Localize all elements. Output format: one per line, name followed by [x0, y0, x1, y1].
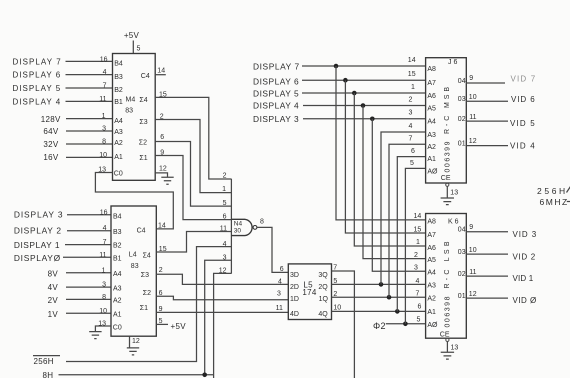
svg-text:A3: A3 [427, 283, 436, 290]
wire DISPLAY6 to M4.B3 [66, 74, 113, 76]
svg-text:9: 9 [469, 224, 473, 231]
junction dot DISPLAY3 [370, 117, 375, 122]
svg-text:K6: K6 [448, 218, 461, 225]
svg-text:8: 8 [260, 218, 264, 225]
svg-text:DISPLAY 6: DISPLAY 6 [13, 70, 61, 79]
svg-text:A6: A6 [427, 245, 436, 252]
svg-text:8: 8 [102, 139, 106, 146]
ROM U K6 (R-C LSB) box [426, 214, 467, 339]
ground (K6 CE) [441, 352, 454, 359]
svg-text:5: 5 [417, 316, 421, 323]
wire DISPLAY6 to J6.A7 pin15 [302, 79, 426, 81]
svg-text:11: 11 [99, 252, 106, 259]
wire DISPLAY5 to M4.B2 [66, 87, 113, 89]
wire DISPLAY3 drop to K6.A4 pin3 [372, 119, 425, 271]
svg-text:7: 7 [103, 83, 107, 90]
svg-text:6: 6 [280, 266, 284, 273]
svg-text:10: 10 [469, 247, 477, 254]
svg-text:A4: A4 [113, 271, 122, 278]
wire 4V to L4.A3 [66, 286, 111, 288]
wire J6.03 pin10 to VID 6 [466, 100, 508, 102]
junction dot DISPLAY7 [334, 64, 339, 69]
wire 4Q net up to J6.A1 pin6 [397, 157, 425, 312]
svg-text:6: 6 [418, 303, 422, 310]
svg-text:B4: B4 [113, 213, 122, 220]
svg-text:32V: 32V [43, 140, 58, 149]
wire 32V to M4.A2 [66, 143, 113, 145]
svg-text:8H: 8H [43, 371, 54, 378]
svg-text:Σ1: Σ1 [139, 155, 147, 162]
svg-text:A5: A5 [427, 106, 436, 113]
wire L4.C0 pin13 to ground [95, 326, 111, 332]
svg-text:14: 14 [157, 67, 165, 74]
stub M4.C4 pin 14 (unconnected) [155, 74, 166, 76]
wire K6.03 pin10 to VID 2 [466, 253, 508, 255]
svg-text:B4: B4 [114, 60, 123, 67]
wire L4.S2 pin6 to L5.1D pin3 [156, 296, 288, 299]
svg-text:DISPLAY 3: DISPLAY 3 [14, 210, 63, 220]
NAND gate N4 (74LS30) input edge [230, 179, 232, 274]
flip-flop U L5 (74174) box [288, 264, 331, 320]
svg-text:DISPLAY 4: DISPLAY 4 [253, 100, 299, 110]
svg-text:11: 11 [469, 269, 476, 276]
svg-text:DISPLAY 1: DISPLAY 1 [14, 240, 60, 250]
svg-text:A8: A8 [427, 66, 436, 73]
svg-text:CE: CE [440, 332, 450, 339]
svg-text:4: 4 [278, 279, 282, 286]
svg-text:3: 3 [277, 291, 281, 298]
wire 8H end up to NAND N4 pin12 [214, 273, 232, 378]
svg-text:04: 04 [458, 78, 466, 85]
svg-text:6: 6 [411, 148, 415, 155]
svg-text:16: 16 [100, 210, 108, 217]
svg-text:2: 2 [414, 252, 418, 259]
svg-text:1: 1 [102, 113, 106, 120]
wire 2Q net up to J6.A3 pin4 [381, 132, 426, 284]
svg-text:4: 4 [103, 225, 107, 232]
svg-text:A1: A1 [427, 309, 436, 316]
svg-text:11: 11 [469, 114, 476, 121]
wire DISPLAY0 to L4.B1 [63, 256, 111, 258]
svg-text:16V: 16V [43, 153, 58, 162]
wire DISPLAY7 to J6.A8 pin14 [302, 65, 426, 67]
svg-text:VID Ø: VID Ø [513, 296, 537, 305]
svg-text:2: 2 [159, 267, 163, 274]
wire 128V to M4.A4 [66, 118, 113, 120]
svg-text:6: 6 [160, 134, 164, 141]
svg-text:A3: A3 [113, 285, 122, 292]
svg-text:A2: A2 [427, 295, 436, 302]
svg-text:VID 2: VID 2 [513, 253, 536, 262]
svg-text:VID 6: VID 6 [511, 95, 535, 104]
svg-text:VID 4: VID 4 [510, 141, 535, 150]
svg-text:A2: A2 [427, 144, 436, 151]
svg-text:03: 03 [458, 249, 466, 256]
svg-text:3: 3 [223, 254, 227, 261]
svg-text:2: 2 [409, 97, 413, 104]
svg-text:DISPLAYØ: DISPLAYØ [14, 253, 61, 263]
svg-text:12: 12 [132, 338, 140, 345]
wire J6.CE pin13 stub [446, 186, 448, 197]
svg-text:1Q: 1Q [319, 296, 329, 303]
svg-text:4V: 4V [48, 283, 59, 292]
svg-text:Φ2: Φ2 [373, 321, 386, 331]
svg-text:14: 14 [158, 223, 166, 230]
svg-text:04: 04 [458, 226, 466, 233]
svg-text:3: 3 [414, 265, 418, 272]
wire DISPLAY5 drop to K6.A6 pin1 [354, 93, 425, 246]
wire DISPLAY2 to L4.B3 [67, 230, 111, 232]
svg-text:B2: B2 [113, 243, 122, 250]
svg-text:11: 11 [276, 305, 283, 312]
svg-text:A6: A6 [427, 93, 436, 100]
svg-text:12: 12 [159, 165, 167, 172]
svg-text:30: 30 [234, 228, 242, 235]
svg-text:01: 01 [458, 293, 466, 300]
svg-text:2V: 2V [48, 296, 59, 305]
wire 2V to L4.A2 [66, 298, 111, 300]
wire K6.04 pin9 to VID 3 [466, 231, 508, 233]
junction dot DISPLAY4 [361, 103, 366, 108]
svg-text:A7: A7 [427, 232, 436, 239]
wire J6.04 pin9 to VID 7 [466, 82, 505, 84]
wire J6.CE pin13 to ground [446, 183, 449, 186]
wire L4.S4 pin15 to NAND N4 pin11 [156, 232, 231, 253]
svg-text:6MHZ: 6MHZ [540, 197, 568, 207]
svg-text:A1: A1 [427, 156, 436, 163]
svg-text:03: 03 [458, 96, 466, 103]
svg-text:B1: B1 [114, 99, 123, 106]
note 6MHZ trailing dash (clipped) [567, 201, 570, 203]
svg-text:02: 02 [458, 116, 466, 123]
ground (M4 pin 12) [161, 177, 173, 184]
svg-text:AØ: AØ [427, 322, 438, 329]
svg-text:A7: A7 [427, 80, 436, 87]
svg-text:A4: A4 [114, 118, 123, 125]
wire PHI2 to K6.A0 pin5 [386, 323, 426, 325]
wire DISPLAY4 to M4.B1 [66, 100, 113, 102]
svg-text:DISPLAY 3: DISPLAY 3 [253, 114, 299, 124]
wire J6.02 pin11 to VID 5 [466, 120, 508, 122]
svg-text:7: 7 [409, 136, 413, 143]
svg-text:Σ3: Σ3 [141, 272, 149, 279]
ROM U J6 (R-C MSB) box [426, 58, 467, 183]
svg-text:10: 10 [469, 94, 477, 101]
svg-text:DISPLAY 7: DISPLAY 7 [13, 58, 62, 67]
svg-text:83: 83 [131, 263, 139, 270]
svg-text:C4: C4 [137, 228, 146, 235]
wire L4 pin12 to ground [129, 336, 131, 348]
NAND gate N4 output bubble [253, 226, 257, 230]
wire L4.S1 pin9 to L5.4D pin11 [156, 311, 288, 313]
svg-text:B3: B3 [114, 74, 123, 81]
svg-text:+5V: +5V [124, 31, 140, 40]
wire J6.01 pin12 to VID 4 [466, 145, 508, 147]
wire L5.3Q pin7 down to bottom edge [332, 271, 355, 378]
svg-text:VID 3: VID 3 [513, 230, 537, 239]
wire 16V to M4.A1 [66, 156, 113, 158]
wire K6.CE pin13 to ground [446, 338, 449, 341]
svg-text:4: 4 [223, 241, 227, 248]
svg-text:5: 5 [223, 200, 227, 207]
wire 8H to junction [59, 374, 214, 376]
wire DISPLAY7 to M4.B4 [66, 60, 113, 62]
svg-text:11: 11 [220, 225, 227, 232]
svg-text:13: 13 [450, 190, 458, 197]
wire DISPLAY3 to J6.A4 pin3 [303, 118, 426, 120]
wire L5.2Q pin5 to K6.A3 pin4 [332, 283, 426, 285]
svg-text:4: 4 [416, 278, 420, 285]
svg-text:C0: C0 [114, 170, 123, 177]
svg-text:3D: 3D [290, 272, 299, 279]
svg-text:5: 5 [410, 160, 414, 167]
svg-text:DISPLAY 5: DISPLAY 5 [13, 84, 61, 93]
svg-text:174: 174 [302, 288, 316, 297]
wire 1Q net up to J6.A2 pin7 [389, 144, 426, 297]
svg-text:7: 7 [416, 291, 420, 298]
svg-text:A2: A2 [113, 298, 122, 305]
svg-text:A1: A1 [113, 311, 122, 318]
svg-text:CE: CE [441, 175, 451, 182]
adder U M4 (74LS83) box [113, 54, 156, 181]
svg-text:14: 14 [414, 213, 422, 220]
note 256H trailing mark (clipped) [567, 187, 570, 193]
svg-text:1: 1 [222, 186, 226, 193]
wire L5.1Q pin2 to K6.A2 pin7 [332, 296, 426, 298]
wire DISPLAY7 drop to K6.A8 pin14 [336, 66, 426, 220]
svg-text:Σ2: Σ2 [143, 290, 151, 297]
svg-text:8: 8 [102, 294, 106, 301]
svg-text:A1: A1 [114, 154, 123, 161]
svg-text:1: 1 [416, 239, 420, 246]
wire M4.S1 pin9 to NAND N4 pin6 [155, 156, 231, 220]
wire K6.02 pin11 to VID 1 [466, 275, 508, 277]
wire K6.01 pin12 to VID 0 [466, 297, 508, 299]
svg-text:Σ4: Σ4 [139, 97, 147, 104]
wire +5V stub to M4 pin 5 [132, 41, 134, 54]
svg-text:DISPLAY 4: DISPLAY 4 [13, 97, 61, 106]
svg-text:Σ3: Σ3 [139, 119, 147, 126]
junction dot 2Q [379, 282, 384, 287]
svg-text:256H: 256H [537, 186, 566, 196]
wire 64V to M4.A3 [66, 130, 113, 132]
wire 8H junction up to NAND N4 pin3 [205, 260, 232, 375]
svg-text:A5: A5 [427, 257, 436, 264]
svg-text:13: 13 [451, 344, 459, 351]
ground (J6 CE) [441, 198, 454, 205]
svg-text:1V: 1V [48, 310, 59, 319]
svg-text:AØ: AØ [427, 168, 438, 175]
svg-text:2D: 2D [290, 284, 299, 291]
svg-text:128V: 128V [41, 115, 61, 124]
wire 8V to L4.A4 [66, 272, 111, 274]
svg-text:10: 10 [99, 308, 107, 315]
svg-text:A3: A3 [114, 129, 123, 136]
svg-text:12: 12 [219, 267, 227, 274]
wire DISPLAY4 to J6.A5 pin2 [303, 105, 426, 107]
wire DISPLAY4 drop to K6.A5 pin2 [363, 106, 426, 259]
svg-text:3: 3 [102, 282, 106, 289]
svg-text:Σ2: Σ2 [139, 140, 147, 147]
svg-text:Σ4: Σ4 [143, 253, 151, 260]
svg-text:VID 5: VID 5 [510, 119, 535, 128]
wire M4 pin12 to ground [155, 173, 167, 177]
svg-text:A8: A8 [427, 218, 436, 225]
svg-text:A2: A2 [114, 140, 123, 147]
svg-text:12: 12 [469, 291, 477, 298]
svg-text:2: 2 [223, 173, 227, 180]
svg-text:5: 5 [137, 45, 141, 52]
svg-text:VID 1: VID 1 [513, 274, 534, 283]
svg-text:16: 16 [100, 57, 108, 64]
wire L4 pin5 stub to +5V [156, 323, 168, 325]
svg-text:B2: B2 [114, 87, 123, 94]
svg-text:DISPLAY 2: DISPLAY 2 [14, 226, 62, 236]
NAND gate N4 body [231, 219, 252, 235]
wire DISPLAY5 to J6.A6 pin1 [302, 92, 426, 94]
svg-text:DISPLAY 6: DISPLAY 6 [253, 76, 299, 86]
svg-text:83: 83 [125, 108, 133, 115]
wire M4.S4 pin15 to NAND N4 pin2 [155, 97, 231, 179]
junction dot PHI2 [403, 322, 408, 327]
svg-text:4: 4 [409, 123, 413, 130]
svg-text:10: 10 [333, 305, 341, 312]
svg-text:14: 14 [408, 57, 416, 64]
svg-text:B3: B3 [113, 229, 122, 236]
svg-text:N4: N4 [234, 221, 243, 228]
wire L5.4Q pin10 to K6.A1 pin6 [332, 310, 426, 312]
adder U L4 (74LS83) box [111, 206, 156, 336]
junction dot 4Q [395, 309, 400, 314]
svg-text:10: 10 [99, 152, 107, 159]
ground (L4 C0) [89, 332, 101, 339]
svg-text:1D: 1D [290, 296, 299, 303]
svg-text:DISPLAY 5: DISPLAY 5 [253, 88, 299, 98]
svg-text:1: 1 [102, 267, 106, 274]
svg-text:4Q: 4Q [318, 311, 328, 318]
svg-text:6: 6 [223, 213, 227, 220]
svg-text:64V: 64V [43, 127, 58, 136]
junction dot DISPLAY5 [352, 91, 357, 96]
junction dot 1Q [387, 295, 392, 300]
wire M4.S2 pin6 to NAND N4 pin5 [155, 142, 231, 207]
wire 1V to L4.A1 [66, 312, 111, 314]
svg-text:C0: C0 [113, 324, 122, 331]
wire 256H to NAND N4 pin4 [66, 247, 231, 362]
svg-text:4D: 4D [290, 311, 299, 318]
svg-text:15: 15 [414, 226, 422, 233]
svg-text:3Q: 3Q [318, 272, 328, 279]
svg-text:M4: M4 [126, 96, 136, 103]
svg-text:1: 1 [411, 84, 415, 91]
svg-text:12: 12 [469, 138, 477, 145]
svg-text:A4: A4 [427, 119, 436, 126]
svg-text:A3: A3 [427, 132, 436, 139]
wire carry M4.C0 pin13 wrap to L4.C4 pin14 [95, 173, 173, 229]
svg-text:VID 7: VID 7 [511, 75, 536, 84]
ground (L4 pin 12) [127, 348, 139, 355]
svg-text:15: 15 [408, 71, 416, 78]
svg-text:006399: 006399 [445, 141, 452, 172]
svg-text:8V: 8V [48, 269, 59, 278]
svg-text:A4: A4 [427, 270, 436, 277]
svg-text:11: 11 [99, 96, 106, 103]
svg-text:3: 3 [102, 126, 106, 133]
svg-text:L4: L4 [129, 251, 137, 258]
svg-text:02: 02 [458, 271, 466, 278]
svg-text:4: 4 [103, 69, 107, 76]
wire PHI2 net up to J6.A0 pin5 [405, 168, 425, 323]
wire DISPLAY3 to L4.B4 [67, 214, 111, 216]
svg-text:256H: 256H [34, 357, 54, 366]
junction dot DISPLAY6 [343, 78, 348, 83]
svg-text:+5V: +5V [171, 322, 187, 331]
svg-text:C4: C4 [141, 73, 150, 80]
svg-text:DISPLAY 7: DISPLAY 7 [253, 62, 300, 72]
svg-text:J6: J6 [448, 59, 459, 66]
wire DISPLAY1 to L4.B2 [65, 244, 111, 246]
wire DISPLAY6 drop to K6.A7 pin15 [345, 80, 425, 233]
svg-text:2Q: 2Q [318, 284, 328, 291]
svg-text:006398: 006398 [445, 296, 452, 327]
overline for 256H [33, 355, 60, 357]
svg-text:3: 3 [409, 110, 413, 117]
wire L4.S3 pin2 to L5.2D pin4 [156, 274, 288, 284]
svg-text:9: 9 [469, 75, 473, 82]
svg-text:01: 01 [458, 140, 466, 147]
svg-text:7: 7 [103, 239, 107, 246]
wire N4 pin8 output to L5.3D pin6 [257, 227, 288, 272]
svg-text:Σ1: Σ1 [140, 305, 148, 312]
wire K6.CE pin13 stub [446, 342, 448, 352]
junction dot 8H [202, 373, 207, 378]
svg-text:B1: B1 [113, 256, 122, 263]
wire M4.S3 pin2 to NAND N4 pin1 [155, 120, 231, 193]
